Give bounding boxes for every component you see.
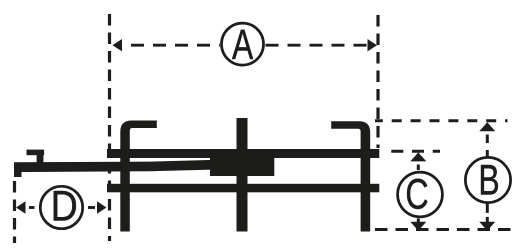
dimension B dashed stem upper	[486, 135, 489, 158]
thermocouple pin cap	[27, 150, 45, 156]
dimension C bottom arrow	[410, 222, 426, 231]
circle A	[222, 23, 264, 65]
pan support bottom rail	[107, 184, 379, 193]
left reference dashed line (A/D datum)	[108, 14, 111, 241]
dimension A dashed line left part	[131, 44, 220, 47]
bottom reference dashed line (B/C datum)	[375, 228, 514, 231]
thermocouple rod with end bracket	[14, 160, 213, 177]
B top reference dashed line	[375, 119, 508, 122]
svg-text:A: A	[232, 22, 254, 69]
circle D	[40, 186, 82, 228]
circle B	[465, 157, 510, 202]
dimension D right arrow	[97, 201, 107, 213]
svg-text:D: D	[51, 184, 78, 231]
dimension A left arrow	[113, 39, 123, 51]
svg-text:B: B	[478, 157, 499, 204]
right reference dashed line (A datum)	[376, 15, 379, 148]
dimension C top arrow	[410, 152, 426, 161]
dimension D dashed segment left	[29, 206, 35, 209]
right hooked post	[331, 121, 370, 231]
dimension C dashed stem lower	[417, 219, 420, 224]
dimension B top arrow	[479, 122, 495, 131]
middle post	[237, 118, 248, 232]
dimension C dashed stem upper	[417, 165, 420, 171]
D left reference dashed line	[13, 181, 16, 243]
circle C	[398, 172, 443, 217]
svg-text:C: C	[405, 171, 428, 218]
dimension A right arrow	[368, 39, 378, 51]
burner body	[210, 152, 274, 176]
thermocouple pin stem	[37, 155, 44, 164]
dimension D dashed segment right	[88, 206, 95, 209]
left hooked post	[120, 121, 157, 232]
dimension B bottom arrow	[479, 222, 495, 231]
dimension A dashed line right part	[266, 44, 367, 47]
C top reference dashed line	[391, 150, 440, 153]
pan support top rail	[107, 149, 379, 158]
dimension D left arrow	[16, 201, 26, 213]
dimension B dashed stem lower	[486, 202, 489, 227]
